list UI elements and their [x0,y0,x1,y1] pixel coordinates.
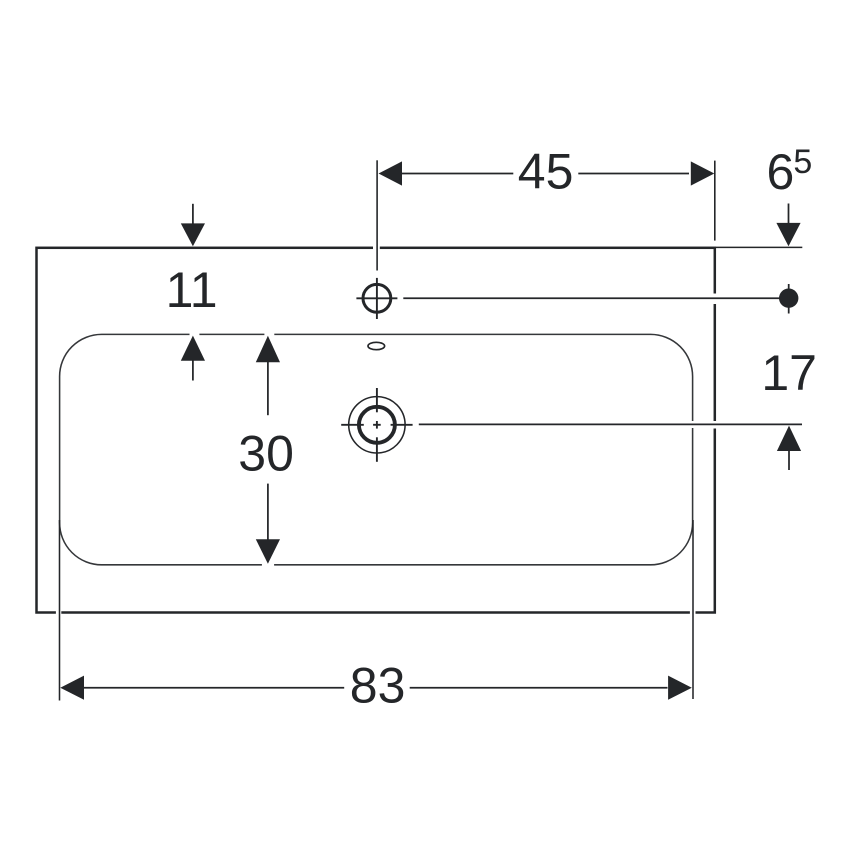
17 dimension up arrow [777,426,801,451]
extension line left of 83 dimension [59,520,61,701]
svg-text:30: 30 [238,426,294,482]
drain outer thin circle [349,397,405,453]
faucet crosshair vertical [376,278,378,319]
drain axis horizontal line to 17 dimension [419,423,802,425]
gap in right edge at drain axis crossing [713,421,717,429]
svg-text:6: 6 [767,144,795,200]
overflow slot ellipse [368,342,385,349]
45 dimension line right segment [578,173,689,175]
drain center plus vertical [376,421,378,429]
6.5 dimension down arrow [776,223,800,246]
gap in basin right edge at drain axis crossing [691,421,694,428]
45 dimension right arrow [691,161,715,185]
30 dimension down arrow [256,539,280,564]
gap in basin top edge at 30-arrow tip [264,333,274,336]
30 dimension up arrow [256,336,280,362]
svg-text:45: 45 [518,143,574,199]
gap in top edge at 45-extension crossing [373,246,380,250]
gap in right edge at faucet axis crossing [713,294,717,305]
30 dimension line upper segment [267,361,269,415]
6.5 dimension arrow tail [788,204,790,225]
drain crosshair bottom tick [376,437,378,462]
faucet hole circle [363,284,391,312]
83 dimension right arrow [668,676,692,700]
11 dimension up arrow tail [192,359,194,381]
tick through reference dot [788,284,790,314]
gap in basin top edge at 11-arrow tip [190,333,200,336]
drain inner thick circle [359,407,395,443]
83 dimension line left segment [84,687,344,689]
extension line left of 45 dimension (faucet axis vertical) [376,160,378,270]
17 dimension up arrow tail [788,450,790,471]
11 dimension down arrow [181,223,205,246]
extension line right of 83 dimension [692,520,694,699]
gap in bottom edge at left 83-extension crossing [56,610,61,614]
faucet axis reference dot [779,289,798,308]
basin inner bowl outline [60,334,693,564]
gap in basin bottom edge at 30-arrow tip [262,563,274,566]
45 dimension line left segment [401,173,513,175]
drain crosshair right tick [391,424,413,426]
83 dimension left arrow [60,676,84,700]
drain center plus horizontal [373,424,381,426]
extension line right of 45 dimension [714,161,716,241]
svg-text:11: 11 [166,262,218,318]
extension of top edge toward 6.5 arrow [716,246,802,248]
faucet axis horizontal line to reference dot [403,297,788,299]
83 dimension line right segment [410,687,668,689]
svg-text:5: 5 [793,143,812,181]
washbasin outer outline [37,248,715,613]
svg-text:83: 83 [350,657,406,713]
45 dimension left arrow [379,161,403,185]
gap in bottom edge at right 83-extension crossing [690,610,696,614]
drain crosshair top tick [376,388,378,412]
11 dimension down arrow tail [192,204,194,225]
svg-text:17: 17 [761,345,817,401]
drain crosshair left tick [341,424,364,426]
30 dimension line lower segment [267,484,269,541]
faucet crosshair horizontal [356,297,397,299]
11 dimension up arrow [181,336,205,361]
